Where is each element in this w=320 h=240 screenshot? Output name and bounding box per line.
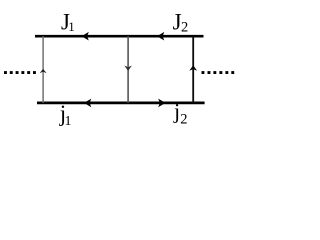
- svg-text:j: j: [173, 99, 180, 124]
- wire bottom conductor: [37, 102, 205, 105]
- label J2: [173, 10, 189, 36]
- wire left vertical: [42, 36, 44, 103]
- arrow bottom-right (current j2, pointing right): [158, 99, 165, 108]
- svg-text:2: 2: [180, 112, 187, 128]
- arrow top-left (current J1, pointing left): [82, 32, 89, 41]
- arrow top-right (current J2, pointing left): [157, 32, 164, 41]
- dotted external line right: [202, 71, 235, 74]
- wire right vertical: [192, 36, 194, 103]
- arrow middle vertical (pointing down): [124, 66, 132, 72]
- arrow bottom-left (current j1, pointing left): [84, 99, 91, 108]
- wire top conductor: [35, 35, 204, 38]
- svg-text:1: 1: [65, 114, 72, 129]
- arrow left vertical (pointing up): [40, 69, 47, 73]
- arrow right vertical (pointing up): [189, 65, 197, 71]
- wire middle vertical: [127, 36, 129, 103]
- svg-text:1: 1: [68, 19, 75, 34]
- label j2: [173, 99, 187, 128]
- label j1: [59, 101, 72, 129]
- dotted external line left: [4, 71, 36, 74]
- label J1: [61, 10, 75, 35]
- svg-text:2: 2: [181, 19, 188, 35]
